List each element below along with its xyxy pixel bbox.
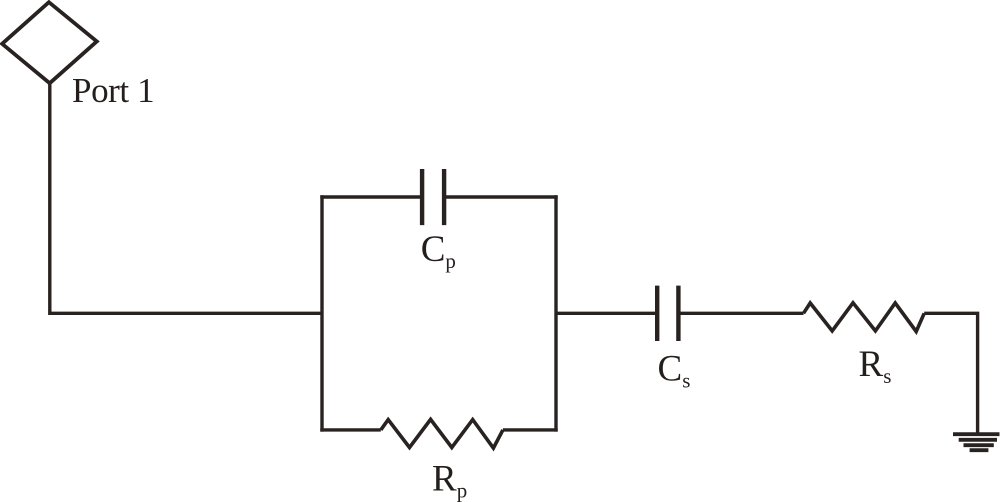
svg-text:Rp: Rp bbox=[432, 459, 467, 502]
port 1 diamond symbol bbox=[2, 2, 97, 83]
svg-text:Cp: Cp bbox=[421, 229, 456, 273]
wire: Rs to ground (corner at right) bbox=[924, 313, 977, 434]
ground symbol bbox=[953, 434, 1000, 450]
wire: block bottom edge right segment bbox=[503, 428, 558, 431]
resistor Rp zigzag bbox=[381, 419, 503, 448]
svg-text:Rs: Rs bbox=[859, 344, 892, 388]
wire: parallel block right rail bbox=[554, 195, 557, 431]
svg-text:Cs: Cs bbox=[658, 349, 691, 393]
resistor Rs zigzag bbox=[804, 303, 925, 332]
wire: block top edge right segment bbox=[444, 195, 558, 198]
wire: block bottom edge left segment bbox=[320, 428, 381, 431]
wire: port 1 down and across to parallel block (node A) bbox=[50, 83, 322, 314]
capacitor Cs plates bbox=[657, 286, 678, 341]
svg-text:Port 1: Port 1 bbox=[72, 71, 154, 110]
wire: Cs to Rs bbox=[678, 312, 803, 315]
wire: block top edge left segment bbox=[320, 195, 422, 198]
capacitor Cp plates bbox=[422, 169, 444, 225]
wire: block to Cs bbox=[556, 312, 657, 315]
wire: parallel block left rail bbox=[320, 195, 323, 431]
